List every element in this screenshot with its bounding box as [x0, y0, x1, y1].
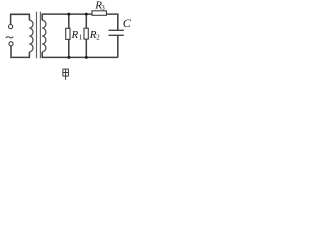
- svg-text:1: 1: [79, 34, 83, 42]
- wire: secondary bottom lead and bottom rail: [42, 52, 118, 58]
- transformer core line right: [39, 12, 41, 59]
- svg-text:2: 2: [96, 33, 100, 41]
- wire: source bottom lead to primary bottom lead: [11, 46, 29, 58]
- svg-text:3: 3: [101, 4, 105, 12]
- node dot: R2 bottom junction: [85, 56, 88, 59]
- resistor R3 box: [92, 11, 106, 16]
- label jia (Chinese character drawn as strokes): [63, 69, 69, 80]
- node dot: R1 bottom junction: [67, 56, 70, 59]
- wire: capacitor bottom stem: [117, 35, 119, 57]
- transformer core line left: [36, 12, 38, 59]
- wire: R1 top branch: [68, 14, 70, 28]
- node dot: R2 top junction: [85, 13, 88, 16]
- wire: R3 to capacitor top: [106, 14, 117, 30]
- capacitor C top plate: [109, 29, 124, 31]
- resistor R2 box: [84, 28, 88, 39]
- AC source tilde: [6, 37, 13, 38]
- wire: R1 bottom branch: [68, 39, 70, 57]
- capacitor C bottom plate: [109, 34, 124, 36]
- transformer primary coil: [29, 20, 33, 52]
- transformer secondary coil: [42, 20, 46, 52]
- wire: secondary top lead and top rail to R3: [42, 14, 92, 20]
- resistor R1 box: [66, 28, 70, 39]
- wire: R2 top branch: [85, 14, 87, 28]
- wire: R2 bottom branch: [85, 39, 87, 57]
- node dot: R1 top junction: [67, 13, 70, 16]
- wire: source top lead to primary top lead: [11, 14, 30, 24]
- svg-text:R: R: [71, 29, 79, 41]
- svg-text:C: C: [123, 16, 132, 30]
- terminal: source bottom: [9, 42, 13, 46]
- terminal: source top: [9, 25, 13, 29]
